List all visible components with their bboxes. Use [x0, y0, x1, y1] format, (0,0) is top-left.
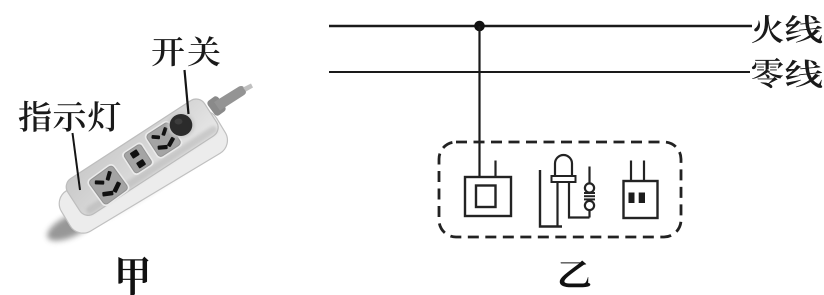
outlet 3 (5-hole socket) [143, 119, 184, 160]
socket symbol: outer square [465, 177, 511, 216]
outlet 2 (2-hole socket) [120, 141, 155, 177]
strip lower body (side/end faces) [54, 105, 233, 239]
strip top face [62, 95, 222, 220]
plug symbol: body square [624, 181, 658, 218]
lamp left leg [556, 182, 558, 227]
shadow along lower edge of strip [96, 136, 223, 224]
resistor bands [584, 193, 595, 199]
label 指示灯 (indicator light) [19, 101, 121, 132]
pointer line to indicator light [73, 133, 81, 190]
switch button bezel [168, 113, 195, 138]
resistor bottom bead [585, 201, 594, 210]
plug prong left [630, 161, 632, 182]
resistor bottom lead [588, 210, 590, 218]
resistor R: top lead [588, 167, 590, 184]
socket stub terminal [494, 161, 496, 178]
power strip photo (甲) [43, 84, 253, 247]
socket symbol: inner square [476, 186, 496, 208]
outlet 1 (5-hole socket) [85, 162, 131, 208]
plug slot left [629, 193, 635, 204]
plug slot right [639, 193, 645, 204]
dashed enclosure box (乙) [439, 142, 681, 237]
drop wire from junction [478, 26, 480, 178]
neutral wire 零线 [329, 71, 750, 73]
power cord strain relief boot [206, 95, 227, 117]
pointer line to switch [185, 70, 189, 114]
lamp flange [552, 176, 576, 182]
label 零线 [752, 58, 822, 88]
caption 乙 [560, 261, 591, 288]
live wire 火线 [329, 25, 752, 27]
plug prong right [643, 161, 645, 182]
lamp right leg and wire to resistor [569, 182, 590, 218]
resistor top bead [585, 183, 594, 192]
caption 甲 [118, 257, 148, 295]
switch button [170, 114, 193, 136]
cord tail highlight [243, 84, 253, 92]
label 开关 (switch) [152, 36, 220, 66]
indicator lamp: left terminal wire [540, 170, 562, 227]
shadow under near end of strip [43, 205, 99, 247]
junction dot on live wire [474, 21, 485, 32]
lamp bulb dome [555, 155, 572, 177]
label 火线 [752, 15, 822, 43]
power cord [214, 86, 246, 110]
